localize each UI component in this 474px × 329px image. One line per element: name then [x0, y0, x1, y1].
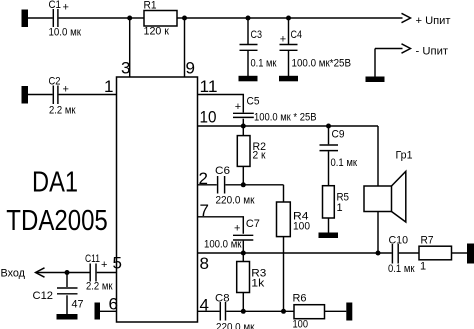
svg-text:0.1 мк: 0.1 мк	[388, 263, 415, 275]
svg-text:+: +	[234, 223, 240, 235]
output terminal	[467, 244, 474, 264]
wire	[67, 272, 90, 274]
svg-text:9: 9	[186, 59, 195, 78]
wire pin 10	[198, 125, 379, 127]
node speaker/C10	[376, 251, 381, 256]
wire	[59, 17, 130, 19]
svg-text:1: 1	[104, 77, 113, 96]
svg-text:100: 100	[293, 319, 309, 329]
speaker Gr1	[364, 150, 413, 223]
capacitor C3	[240, 29, 277, 70]
wire	[328, 151, 330, 185]
svg-text:C12: C12	[33, 290, 54, 302]
wire pin 1	[59, 94, 117, 96]
wire	[328, 218, 330, 233]
capacitor C1	[49, 0, 82, 39]
svg-text:1: 1	[420, 261, 426, 273]
capacitor C7	[204, 218, 260, 251]
svg-text:0.1 мк: 0.1 мк	[331, 157, 358, 169]
svg-text:- Uпит: - Uпит	[416, 46, 449, 58]
resistor R6	[293, 293, 325, 329]
capacitor C8	[215, 293, 255, 329]
wire	[242, 126, 244, 136]
svg-text:C8: C8	[215, 293, 230, 305]
node R2 bottom	[241, 182, 246, 187]
svg-text:C2: C2	[49, 76, 61, 88]
wire pin 7	[198, 217, 244, 234]
svg-text:11: 11	[200, 77, 218, 96]
wire +supply rail	[185, 17, 403, 19]
node C3	[246, 16, 251, 21]
ground R5	[319, 233, 339, 239]
svg-text:120 к: 120 к	[144, 26, 170, 38]
wire C4 branch	[288, 18, 290, 44]
terminal pin 6	[95, 303, 101, 320]
svg-text:C6: C6	[215, 165, 230, 177]
svg-text:220.0 мк: 220.0 мк	[216, 322, 255, 329]
wire speaker bottom	[377, 212, 379, 254]
svg-text:0.1 мк: 0.1 мк	[251, 58, 277, 70]
svg-text:+: +	[101, 259, 107, 271]
wire R4 bottom crossing pin8 wire	[283, 237, 285, 312]
wire pin 9	[184, 18, 186, 77]
wire pin 4	[198, 310, 220, 312]
wire pin 3	[129, 18, 131, 77]
svg-text:5: 5	[113, 254, 122, 273]
svg-text:+: +	[280, 34, 286, 46]
svg-text:R1: R1	[144, 0, 157, 12]
svg-text:C4: C4	[291, 29, 303, 41]
svg-text:DA1: DA1	[32, 167, 78, 199]
capacitor C9	[320, 126, 358, 169]
wire C3 branch	[247, 18, 249, 44]
ground C4	[279, 76, 298, 82]
svg-text:10: 10	[200, 108, 217, 127]
svg-text:+: +	[235, 101, 241, 113]
svg-text:+: +	[63, 2, 69, 14]
capacitor C10	[388, 235, 415, 276]
svg-text:8: 8	[200, 254, 209, 273]
svg-text:+ Uпит: + Uпит	[416, 15, 451, 27]
-Upit arrow and wire	[375, 44, 448, 58]
svg-text:100.0 мк*25В: 100.0 мк*25В	[292, 58, 352, 70]
wire	[242, 293, 244, 312]
capacitor C11	[85, 253, 113, 293]
svg-text:1: 1	[337, 202, 343, 214]
node C1/R1/pin3	[127, 16, 132, 21]
resistor R4	[277, 202, 311, 237]
node R3 bottom	[241, 309, 246, 314]
svg-text:3: 3	[121, 59, 130, 78]
svg-text:100.0 мк: 100.0 мк	[204, 239, 242, 251]
wire	[288, 51, 290, 76]
wire pin 6	[100, 310, 117, 312]
wire pin 2	[198, 184, 217, 186]
node C7/R3	[241, 251, 246, 256]
+Upit arrow	[402, 13, 451, 27]
wire to speaker	[377, 126, 379, 186]
node C5/R2	[241, 124, 246, 129]
svg-text:10.0 мк: 10.0 мк	[49, 27, 82, 39]
svg-text:R6: R6	[293, 293, 307, 305]
svg-text:100: 100	[293, 221, 310, 233]
wire	[325, 310, 347, 312]
wire	[247, 51, 249, 76]
wire	[242, 166, 244, 184]
svg-text:Гр1: Гр1	[396, 150, 413, 162]
node R1/pin9	[182, 16, 187, 21]
node C11/C12	[65, 270, 70, 275]
capacitor C12	[33, 273, 84, 311]
svg-text:100.0 мк * 25В: 100.0 мк * 25В	[254, 112, 317, 124]
svg-text:1k: 1k	[251, 278, 265, 290]
resistor R1	[144, 0, 178, 38]
svg-text:C3: C3	[251, 29, 263, 41]
wire to R4	[283, 185, 285, 202]
svg-text:C10: C10	[389, 235, 409, 247]
svg-text:47: 47	[72, 299, 84, 311]
node C4	[286, 16, 291, 21]
node R4 bottom	[281, 309, 286, 314]
ground C12	[57, 314, 78, 320]
svg-text:2 к: 2 к	[253, 150, 266, 162]
svg-text:220.0 мк: 220.0 мк	[216, 195, 255, 207]
wire	[28, 94, 53, 96]
ground -Upit	[366, 77, 385, 83]
capacitor C4	[280, 29, 352, 70]
wire	[28, 17, 53, 19]
capacitor C2	[49, 76, 76, 117]
wire	[225, 184, 283, 186]
wire	[177, 17, 185, 19]
input terminal (pin1 row)	[22, 86, 29, 104]
resistor R2	[237, 136, 266, 167]
svg-text:2.2 мк: 2.2 мк	[86, 281, 113, 293]
wire	[242, 241, 244, 253]
resistor R7	[419, 235, 452, 273]
input terminal (top left)	[22, 10, 29, 28]
wire pin 11	[198, 95, 244, 113]
wire	[226, 310, 294, 312]
svg-text:R7: R7	[421, 235, 434, 247]
svg-text:C9: C9	[332, 129, 345, 141]
svg-text:2.2 мк: 2.2 мк	[49, 105, 76, 117]
wire	[374, 49, 376, 77]
wire	[242, 119, 244, 126]
wire	[66, 295, 68, 314]
resistor R5	[323, 186, 350, 218]
node C9	[326, 124, 331, 129]
input arrow	[36, 268, 68, 277]
IC DA1 TDA2005 body	[6, 77, 197, 322]
svg-text:C7: C7	[246, 218, 260, 230]
svg-text:TDA2005: TDA2005	[6, 205, 108, 237]
svg-text:C11: C11	[85, 253, 100, 265]
ground C3	[239, 76, 258, 82]
wire pin 5	[97, 272, 117, 274]
terminal R6 right	[346, 303, 352, 321]
wire	[399, 252, 419, 254]
svg-text:C1: C1	[49, 0, 62, 11]
wire	[452, 252, 468, 254]
resistor R3	[237, 253, 267, 293]
svg-text:+: +	[63, 84, 69, 96]
wire	[130, 17, 144, 19]
capacitor C5	[233, 96, 317, 124]
svg-text:C5: C5	[247, 96, 260, 108]
wire pin 8	[198, 252, 392, 254]
capacitor C6	[215, 165, 255, 207]
svg-text:Вход: Вход	[1, 268, 26, 280]
